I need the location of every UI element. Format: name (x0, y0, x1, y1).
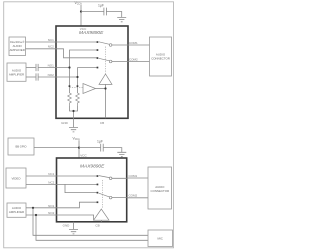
node NO2 branch up to switch (78, 68, 98, 77)
node NO1 branch up to switch (70, 50, 98, 68)
pin label GND (61, 121, 69, 125)
wire tap L down to MIC (33, 208, 148, 236)
wire resistor branch 2 (77, 77, 79, 93)
svg-text:NC1: NC1 (48, 38, 54, 42)
junction (80, 10, 82, 12)
border frame (4, 2, 174, 248)
gang dashed link (102, 180, 104, 208)
junction NO2 (76, 76, 78, 78)
svg-text:AMPLIFIER: AMPLIFIER (10, 48, 25, 52)
switch S1 pole (109, 44, 112, 47)
wire video2 (26, 183, 97, 185)
svg-text:CB: CB (100, 121, 104, 125)
wire to cap (79, 147, 100, 149)
wire resistor branch 1 (69, 68, 71, 94)
svg-text:BB GPIO: BB GPIO (15, 145, 26, 149)
audio amplifier box (top) (7, 63, 26, 81)
switch S3 contacts (97, 175, 99, 177)
op-amp A1 (sense) (83, 84, 96, 94)
wire NO2 with cap (26, 76, 36, 78)
junction (72, 110, 74, 112)
capacitor C3 (36, 73, 38, 80)
audio connector (top) (150, 37, 172, 76)
switch S2 contacts (97, 57, 99, 59)
ground (69, 128, 78, 132)
switch S3 pole (109, 177, 112, 180)
chip U2 body (57, 158, 127, 222)
junction NO1 (68, 66, 70, 68)
pin labels left (48, 38, 55, 77)
wire amp out (96, 88, 106, 90)
wire VCCA vertical (80, 5, 82, 26)
capacitor C2 (36, 64, 38, 71)
op-amp A2 (driver, up) (99, 74, 112, 84)
pin label CB (95, 224, 99, 228)
pin labels left (bottom chip) (48, 172, 55, 215)
svg-text:COM2: COM2 (129, 58, 138, 62)
svg-text:NC1: NC1 (48, 172, 54, 176)
wire NO2 cont (38, 76, 77, 78)
wire driver down (100, 220, 102, 222)
wire COM1 (112, 44, 150, 46)
wire video1 (26, 175, 97, 177)
svg-text:MAX9890E: MAX9890E (79, 30, 104, 36)
wire NO1 cont (38, 67, 69, 69)
pin label GND (63, 223, 71, 227)
svg-text:CONNECTOR: CONNECTOR (151, 189, 170, 193)
capacitor C4 1uF (101, 144, 104, 152)
ground (69, 230, 78, 234)
GPIO box (8, 138, 34, 155)
wire audio L (26, 202, 97, 208)
dashed control line to amp (70, 87, 84, 89)
svg-text:NO2: NO2 (48, 211, 55, 215)
svg-text:VCC: VCC (80, 154, 87, 158)
video box (6, 168, 26, 188)
wire audio R (26, 215, 94, 220)
svg-text:NO2: NO2 (48, 73, 55, 77)
svg-text:COM1: COM1 (129, 174, 138, 178)
junction (78, 147, 80, 149)
junction (104, 87, 106, 89)
wire GND (bottom chip) (73, 222, 75, 230)
node VCCA (bottom supply) (73, 137, 81, 142)
wire NC2 (26, 49, 98, 58)
svg-text:COM2: COM2 (129, 193, 138, 197)
wire COM2 (bottom) (112, 197, 148, 199)
svg-text:GND: GND (61, 121, 69, 125)
wire tap R down to MIC (36, 215, 148, 240)
node VCCA (top supply) (75, 1, 83, 6)
capacitor C1 1uF (104, 8, 107, 16)
op-amp U1 chip body MAX9890E (56, 26, 128, 118)
resistor R2 (76, 93, 80, 106)
svg-text:AMPLIFIER: AMPLIFIER (9, 73, 24, 77)
svg-text:GND: GND (63, 223, 71, 227)
svg-text:1µF: 1µF (97, 139, 103, 143)
gang dashed link (105, 47, 107, 74)
wire GPIO to VCC node (34, 147, 79, 149)
wire NO1 with cap (26, 67, 36, 69)
svg-text:1µF: 1µF (98, 3, 104, 7)
audio amplifier box (bottom) (7, 203, 26, 217)
audio connector (bottom) (148, 167, 172, 209)
switch S2 pole (109, 60, 112, 63)
pin label VCC (80, 27, 87, 31)
op-amp A3 (driver, up) (94, 209, 109, 220)
wire COM2 (112, 61, 150, 63)
pin label VCC (80, 154, 87, 158)
svg-text:MAX9890E: MAX9890E (80, 163, 105, 169)
svg-text:VIDEO: VIDEO (12, 176, 22, 180)
junction audio L (32, 207, 34, 209)
wire driver down (105, 84, 107, 118)
junction audio R (35, 214, 37, 216)
svg-text:COM1: COM1 (129, 41, 138, 45)
wire cap to ground (103, 148, 122, 153)
wire VCCA vertical (78, 140, 80, 157)
wire resistor commons (70, 106, 78, 127)
svg-text:NO1: NO1 (48, 204, 55, 208)
wire NC1 (26, 41, 98, 43)
svg-text:NC2: NC2 (48, 180, 54, 184)
svg-text:MIC: MIC (158, 237, 163, 241)
wire COM1 (bottom) (112, 177, 148, 179)
wire branch to sw2 (65, 184, 97, 192)
wire to bypass cap (81, 11, 104, 13)
MIC box (148, 230, 173, 247)
DirectDrive audio amplifier box (9, 37, 26, 56)
svg-text:AMPLIFIER: AMPLIFIER (9, 210, 24, 214)
svg-text:NC2: NC2 (48, 45, 54, 49)
switch S1 contacts (97, 41, 99, 43)
wire cap to ground (106, 12, 121, 18)
switch S4 contacts (97, 192, 99, 194)
pin label CB (100, 121, 104, 125)
svg-text:CB: CB (95, 224, 99, 228)
svg-text:NO1: NO1 (48, 63, 55, 67)
ground (117, 17, 126, 21)
svg-text:CONNECTOR: CONNECTOR (151, 57, 170, 61)
ground (117, 152, 126, 156)
switch S4 pole (109, 196, 112, 199)
shunt switch marks (69, 85, 71, 87)
resistor R1 (68, 93, 72, 106)
